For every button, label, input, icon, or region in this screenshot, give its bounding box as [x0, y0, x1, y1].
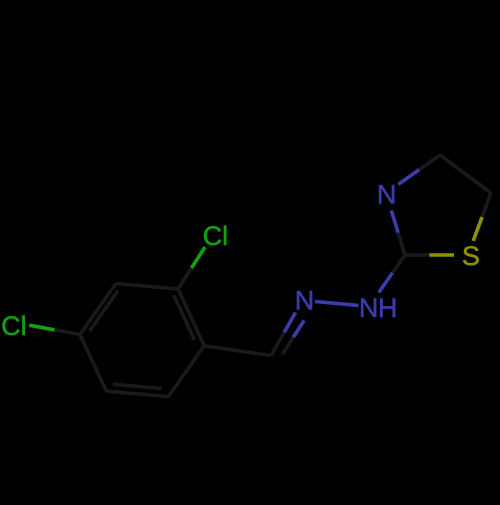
benzene inner aromatic line C5-C6: [113, 384, 162, 388]
bond C1-CH (to methine): [204, 346, 271, 356]
svg-text:Cl: Cl: [1, 311, 27, 341]
benzene inner aromatic line C1-C2: [174, 295, 195, 340]
double bond CH=N main line, carbon half: [271, 332, 284, 355]
benzene ring C2-C3: [116, 284, 178, 290]
benzene ring C3-C4: [80, 284, 116, 335]
bond C2-S thiazole, sulfur half: [430, 253, 455, 257]
double bond CH=N inner line, nitrogen half: [293, 320, 304, 337]
bond NH-C2 thiazole, carbon half: [393, 255, 406, 273]
svg-text:N: N: [377, 180, 397, 210]
benzene ring C1-C2: [178, 289, 204, 346]
bond C2-Cl top, chlorine half: [192, 247, 206, 268]
bond C2-Cl top, carbon half: [178, 268, 192, 289]
svg-text:N: N: [295, 286, 315, 316]
double bond CH=N main line, nitrogen half: [284, 312, 295, 332]
benzene inner aromatic line C3-C4: [90, 291, 118, 331]
benzene ring C5-C6: [106, 391, 168, 397]
svg-text:S: S: [462, 241, 480, 271]
bond N3-C2 thiazole, nitrogen half: [391, 211, 398, 233]
bond N3-C4 thiazole, carbon half: [419, 155, 440, 170]
bond N-NH (hydrazone N-N): [315, 302, 359, 306]
double bond CH=N inner line, carbon half: [283, 337, 294, 354]
bond C4-Cl left, chlorine half: [29, 325, 54, 330]
svg-text:NH: NH: [359, 293, 397, 323]
bond N3-C4 thiazole, nitrogen half: [398, 170, 419, 185]
bond C4-C5 thiazole: [440, 155, 491, 193]
benzene ring C4-C5: [80, 335, 106, 392]
bond N3-C2 thiazole, carbon half: [398, 233, 405, 255]
bond S-C5 thiazole, carbon half: [482, 193, 491, 217]
svg-text:Cl: Cl: [203, 221, 229, 251]
bond C2-S thiazole, carbon half: [405, 253, 430, 257]
bond NH-C2 thiazole, nitrogen half: [379, 273, 393, 293]
bond S-C5 thiazole, sulfur half: [473, 217, 482, 241]
benzene ring C6-C1: [168, 346, 204, 397]
bond C4-Cl left, carbon half: [54, 330, 80, 335]
